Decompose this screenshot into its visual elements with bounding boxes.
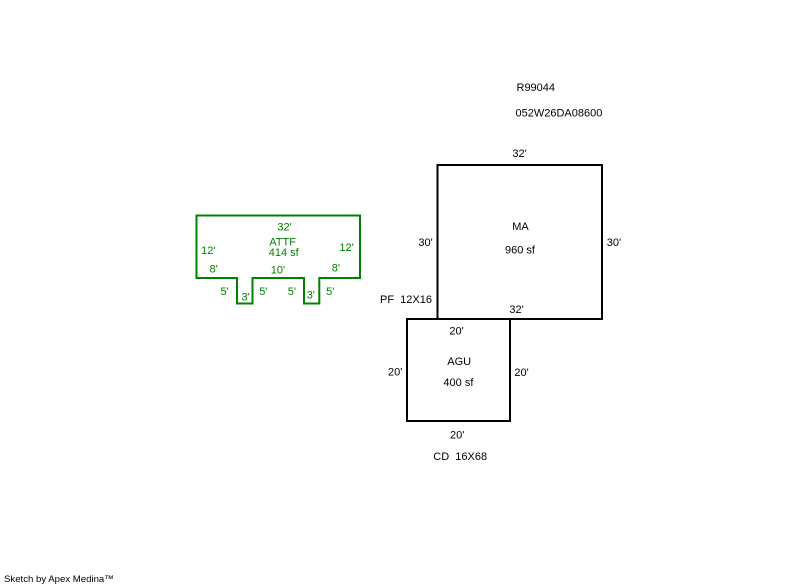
svg-text:20': 20' bbox=[514, 367, 528, 379]
svg-text:AGU: AGU bbox=[447, 356, 471, 368]
svg-text:PF 12X16: PF 12X16 bbox=[380, 294, 432, 306]
svg-text:052W26DA08600: 052W26DA08600 bbox=[516, 108, 603, 120]
room MA outline (black rectangle) bbox=[438, 165, 603, 319]
svg-text:10': 10' bbox=[271, 264, 285, 276]
svg-text:3': 3' bbox=[241, 292, 249, 304]
svg-text:32': 32' bbox=[277, 221, 291, 233]
svg-text:20': 20' bbox=[449, 326, 463, 338]
svg-text:960 sf: 960 sf bbox=[505, 245, 536, 257]
svg-text:20': 20' bbox=[450, 430, 464, 442]
room AGU outline (black rectangle) bbox=[407, 319, 510, 421]
svg-text:5': 5' bbox=[326, 286, 334, 298]
svg-text:5': 5' bbox=[288, 286, 296, 298]
svg-text:3': 3' bbox=[307, 290, 315, 302]
svg-text:R99044: R99044 bbox=[517, 82, 556, 94]
svg-text:32': 32' bbox=[512, 148, 526, 160]
svg-text:CD 16X68: CD 16X68 bbox=[433, 451, 487, 463]
svg-text:5': 5' bbox=[220, 286, 228, 298]
svg-text:5': 5' bbox=[259, 286, 267, 298]
svg-text:Sketch by Apex Medina™: Sketch by Apex Medina™ bbox=[4, 574, 114, 585]
svg-text:414 sf: 414 sf bbox=[269, 247, 300, 259]
attached structure ATTF outline (green polygon with two legs) bbox=[197, 216, 361, 304]
svg-text:12': 12' bbox=[201, 245, 215, 257]
svg-text:8': 8' bbox=[332, 263, 340, 275]
svg-text:12': 12' bbox=[339, 242, 353, 254]
svg-text:30': 30' bbox=[607, 237, 621, 249]
svg-text:32': 32' bbox=[509, 304, 523, 316]
svg-text:8': 8' bbox=[209, 264, 217, 276]
svg-text:MA: MA bbox=[512, 221, 529, 233]
svg-text:30': 30' bbox=[418, 237, 432, 249]
svg-text:20': 20' bbox=[388, 366, 402, 378]
svg-text:400 sf: 400 sf bbox=[443, 377, 474, 389]
